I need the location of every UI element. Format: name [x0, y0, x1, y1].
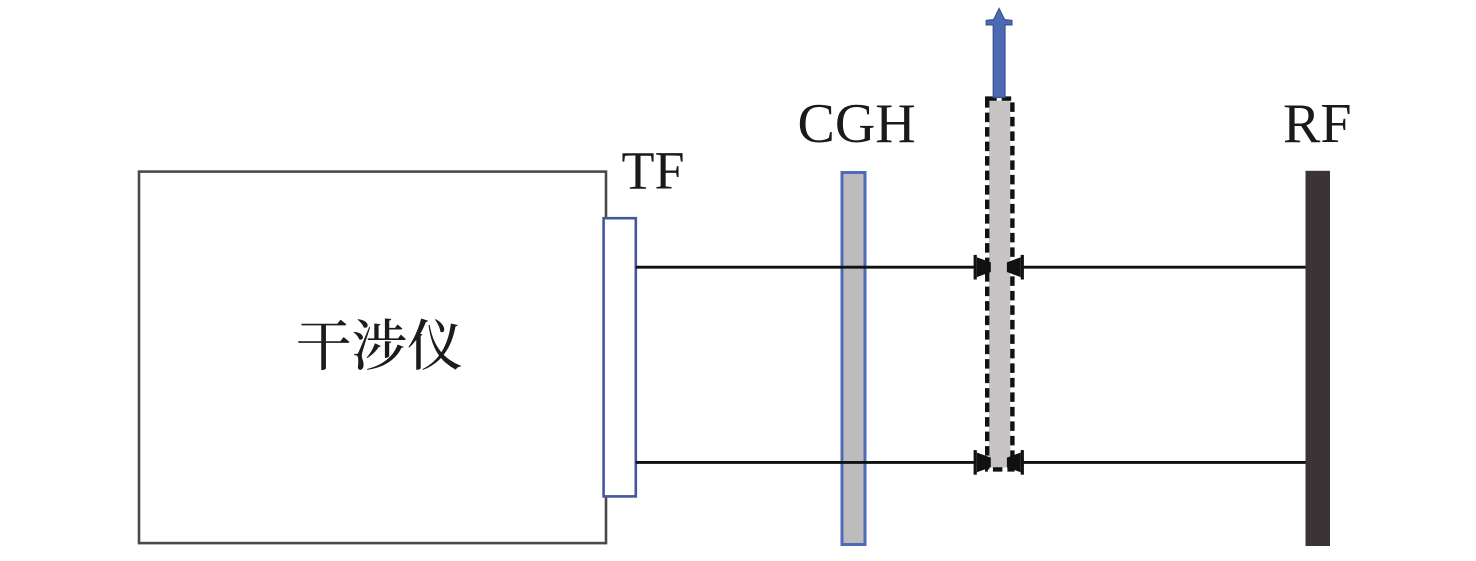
transmission flat TF: [604, 218, 636, 496]
lower beam line right segment: [1022, 461, 1306, 464]
interferometer box: [139, 172, 606, 543]
lower right arrowhead: [1007, 450, 1024, 475]
upper beam line right segment: [1022, 266, 1306, 269]
label 干涉仪: [298, 318, 461, 370]
svg-text:RF: RF: [1283, 93, 1352, 155]
lower left arrowhead: [974, 450, 991, 475]
upper left arrowhead: [974, 255, 991, 280]
test surface dashed plate: [989, 101, 1010, 468]
svg-text:CGH: CGH: [798, 93, 916, 155]
blue displacement arrow: [986, 9, 1012, 98]
lower beam line left segment: [636, 461, 976, 464]
upper right arrowhead: [1007, 255, 1024, 280]
reference flat RF: [1306, 171, 1331, 546]
CGH plate: [842, 173, 865, 545]
svg-text:TF: TF: [622, 141, 685, 201]
upper beam line left segment: [636, 266, 976, 269]
